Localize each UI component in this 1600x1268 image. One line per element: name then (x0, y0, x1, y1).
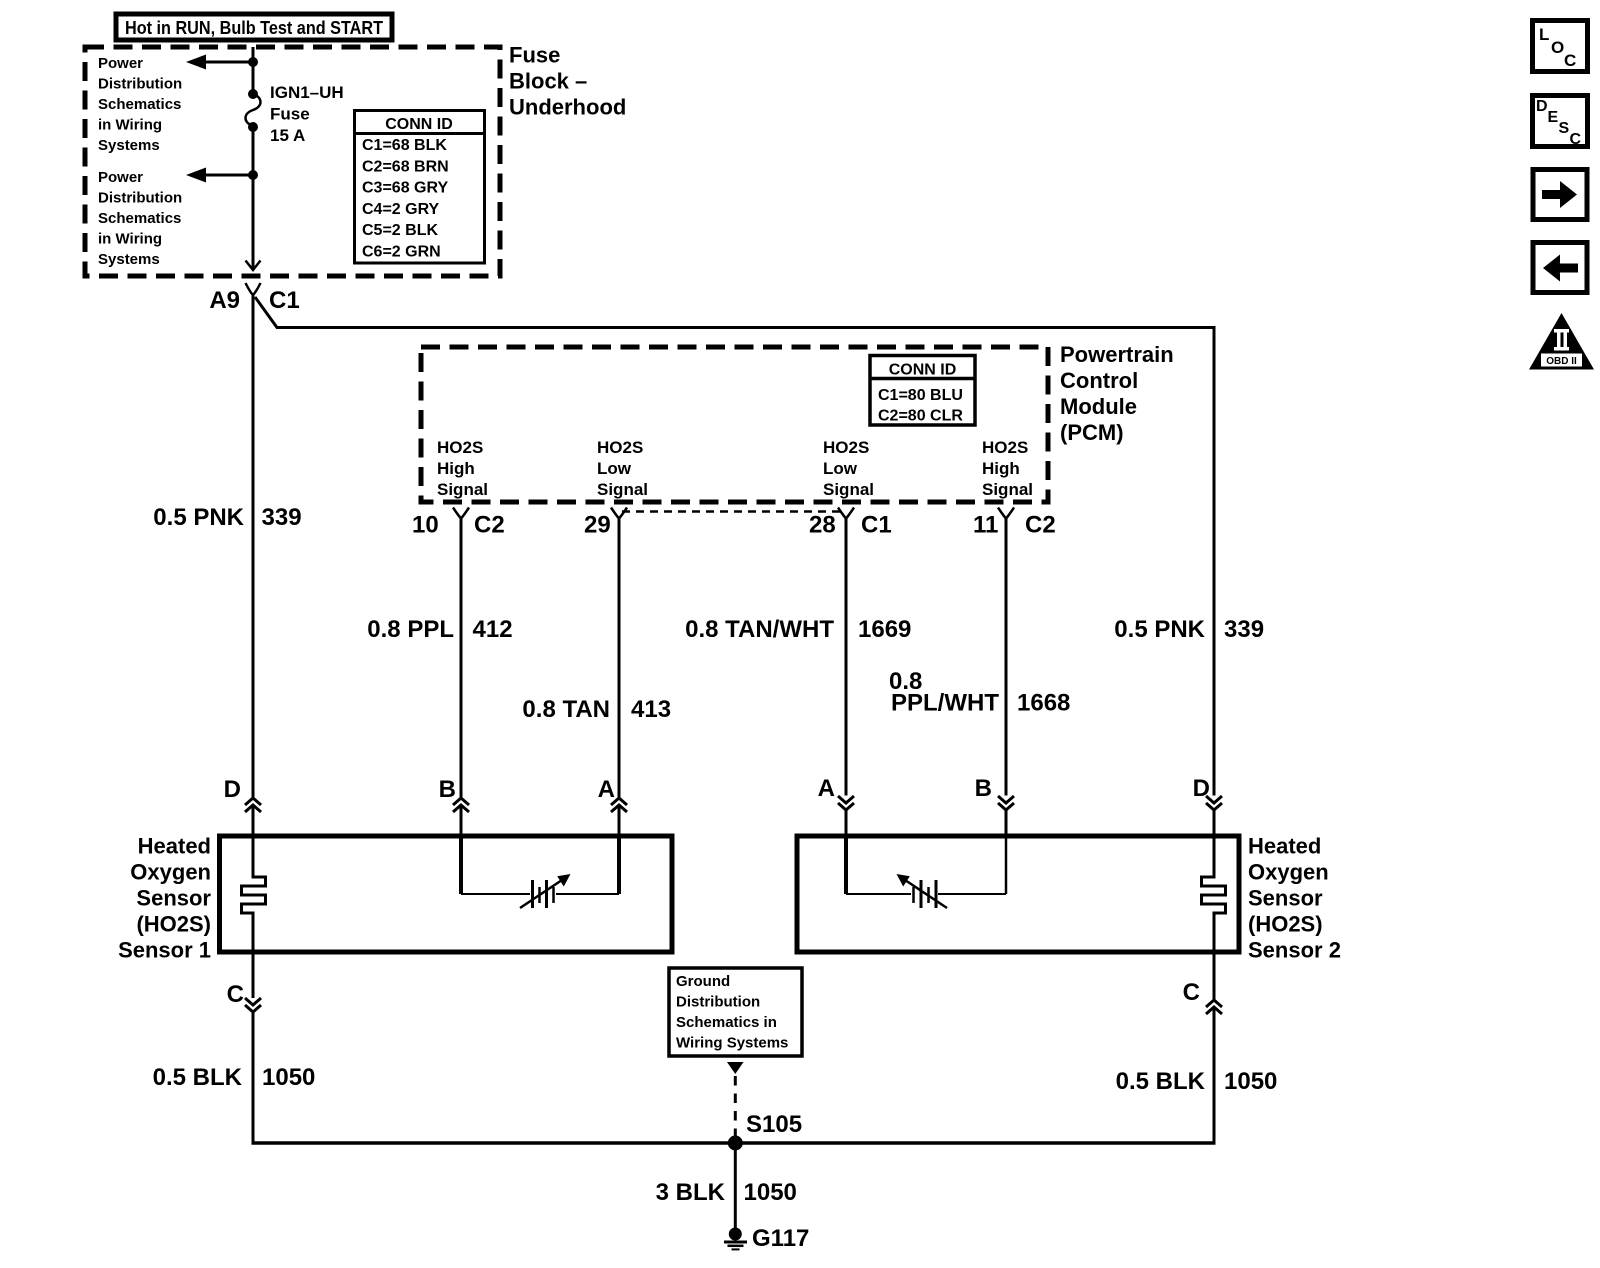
svg-text:Low: Low (823, 459, 858, 478)
svg-text:Block –: Block – (509, 69, 587, 94)
wire stubs from chevrons into sensor boxes (252, 805, 255, 838)
label: Fuse Block - Underhood (509, 43, 626, 120)
svg-text:D: D (1193, 775, 1210, 802)
wire: sensor 1 heater output to pin C (252, 952, 255, 998)
svg-text:in Wiring: in Wiring (98, 117, 162, 134)
wire: 0.8 PPL 412 from pin 10 to sensor 1 pin B (460, 519, 463, 798)
connector cup: PCM pin 11 C2 (998, 508, 1014, 519)
svg-text:OBD II: OBD II (1546, 356, 1577, 367)
svg-text:C3=68 GRY: C3=68 GRY (362, 180, 448, 197)
wire: 0.5 BLK 1050 from sensor 1 to splice (252, 1012, 255, 1145)
wire: 0.5 PNK 339 right side down to sensor 2 pin D (1213, 326, 1216, 796)
svg-text:Distribution: Distribution (98, 190, 182, 207)
svg-text:C2: C2 (474, 512, 505, 539)
svg-text:Sensor: Sensor (136, 886, 211, 911)
value label: 0.8 PPL/WHT 1668 (889, 668, 1070, 717)
svg-text:IGN1–UH: IGN1–UH (270, 83, 344, 102)
sensing cell (sensor 1): variable voltage source (461, 874, 619, 908)
net label: HO2S Low Signal (pin 29) (597, 438, 648, 499)
connector A9 / C1 terminal cup (246, 283, 261, 295)
svg-text:Systems: Systems (98, 137, 160, 154)
splice S105 junction dot (728, 1136, 743, 1151)
arrowhead from ground note box (727, 1062, 744, 1074)
svg-text:11: 11 (973, 512, 998, 539)
component box: Heated Oxygen Sensor (HO2S) Sensor 2 (797, 836, 1239, 952)
wire: 0.5 PNK 339 down to HO2S sensor 1 pin D (252, 295, 255, 798)
svg-text:1050: 1050 (1224, 1068, 1277, 1095)
connector cup: PCM pin 10 C2 (453, 508, 469, 519)
svg-text:(HO2S): (HO2S) (136, 912, 211, 937)
svg-text:G117: G117 (752, 1225, 809, 1252)
svg-text:Heated: Heated (138, 834, 211, 859)
svg-text:339: 339 (1224, 616, 1264, 643)
terminal C (sensor 1) with chevrons pointing down (227, 981, 261, 1012)
svg-text:413: 413 (631, 696, 671, 723)
note box: Ground Distribution Schematics in Wiring Systems (669, 968, 802, 1056)
svg-text:1669: 1669 (858, 616, 911, 643)
svg-text:Distribution: Distribution (98, 76, 182, 93)
svg-text:Control: Control (1060, 368, 1138, 393)
svg-text:C2=80 CLR: C2=80 CLR (878, 408, 963, 425)
svg-text:Schematics: Schematics (98, 210, 181, 227)
svg-text:in Wiring: in Wiring (98, 231, 162, 248)
fuse block underhood dashed box (85, 47, 500, 276)
svg-text:PPL/WHT: PPL/WHT (891, 690, 999, 717)
svg-text:10: 10 (412, 512, 439, 539)
svg-text:B: B (975, 775, 992, 802)
net label: HO2S High Signal (pin 10) (437, 438, 488, 499)
svg-text:O: O (1551, 38, 1564, 57)
wire: 0.8 PPL/WHT 1668 from pin 11 to sensor 2 pin B (1005, 519, 1008, 796)
label: Heated Oxygen Sensor (HO2S) Sensor 2 (1248, 834, 1341, 963)
svg-text:S: S (1559, 120, 1570, 137)
svg-text:S105: S105 (746, 1111, 802, 1138)
nav icon: back arrow button (1533, 243, 1587, 293)
svg-text:C1: C1 (861, 512, 892, 539)
svg-text:Power: Power (98, 169, 143, 186)
wire: sensor 1 pin B internal (459, 838, 463, 894)
banner: Hot in RUN, Bulb Test and START (116, 14, 392, 40)
svg-text:(PCM): (PCM) (1060, 420, 1124, 445)
svg-text:High: High (437, 459, 475, 478)
svg-text:Fuse: Fuse (509, 43, 560, 68)
wire: fuse output down to A9 terminal (252, 127, 255, 270)
wire: ignition feed across top to sensor 2 side (255, 297, 1214, 328)
svg-text:C2: C2 (1025, 512, 1056, 539)
svg-text:Ground: Ground (676, 973, 730, 990)
svg-text:C5=2 BLK: C5=2 BLK (362, 222, 438, 239)
wire: branch arrow to power distribution (lower) (186, 168, 253, 183)
svg-text:412: 412 (473, 616, 513, 643)
nav icon: DESC button (1533, 96, 1588, 149)
label: Powertrain Control Module (PCM) (1060, 342, 1174, 445)
svg-text:0.5 PNK: 0.5 PNK (1114, 616, 1205, 643)
svg-text:0.8 TAN: 0.8 TAN (522, 696, 610, 723)
ground G117 symbol (724, 1228, 747, 1250)
svg-text:D: D (1536, 98, 1548, 115)
svg-text:1668: 1668 (1017, 690, 1070, 717)
wire: sensor 2 pin B internal (1005, 838, 1008, 894)
terminal B (sensor 1) with chevrons (439, 776, 469, 812)
value label: 0.8 TAN 413 (522, 696, 671, 723)
wire: sensor 1 pin A internal (617, 838, 621, 894)
wire: branch arrow to power distribution (upper) (186, 55, 253, 70)
svg-text:Hot in RUN, Bulb Test and STAR: Hot in RUN, Bulb Test and START (125, 18, 383, 38)
svg-text:High: High (982, 459, 1020, 478)
note: Power Distribution Schematics in Wiring Systems (upper) (98, 55, 182, 154)
svg-text:0.8 TAN/WHT: 0.8 TAN/WHT (685, 616, 834, 643)
svg-text:Distribution: Distribution (676, 994, 760, 1011)
terminal C (sensor 2) with chevrons pointing up (1183, 979, 1222, 1014)
value label: 0.5 PNK 339 (153, 504, 301, 531)
wire: sensor 2 heater output to pin C (1213, 952, 1216, 1000)
value label: 0.5 PNK 339 (right) (1114, 616, 1264, 643)
svg-text:L: L (1539, 25, 1549, 44)
terminal D (sensor 2) with chevrons pointing down (1193, 775, 1222, 810)
svg-text:0.5 BLK: 0.5 BLK (153, 1064, 243, 1091)
connector table: CONN ID (fuse block) (355, 111, 485, 264)
wire: 0.8 TAN 413 from pin 29 to sensor 1 pin A (618, 519, 621, 798)
fuse IGN1-UH 15 A symbol (246, 89, 261, 132)
svg-text:C1=80 BLU: C1=80 BLU (878, 387, 963, 404)
svg-text:1050: 1050 (262, 1064, 315, 1091)
svg-text:C2=68 BRN: C2=68 BRN (362, 158, 449, 175)
svg-text:0.5 BLK: 0.5 BLK (1116, 1068, 1206, 1095)
wire: sensor 2 pin A internal (844, 838, 848, 894)
svg-text:CONN ID: CONN ID (889, 362, 957, 379)
svg-text:HO2S: HO2S (823, 438, 869, 457)
connector table: CONN ID (PCM) (870, 356, 975, 426)
component box: Heated Oxygen Sensor (HO2S) Sensor 1 (220, 836, 673, 952)
svg-text:Oxygen: Oxygen (1248, 860, 1329, 885)
connector cup: PCM pin 29 (611, 508, 627, 519)
nav icon: forward arrow button (1533, 170, 1587, 220)
svg-text:Oxygen: Oxygen (130, 860, 211, 885)
svg-text:339: 339 (262, 504, 302, 531)
value label: 0.8 TAN/WHT 1669 (685, 616, 911, 643)
svg-text:Power: Power (98, 55, 143, 72)
svg-text:28: 28 (809, 512, 836, 539)
svg-text:C: C (1183, 979, 1200, 1006)
svg-text:Sensor 1: Sensor 1 (118, 938, 211, 963)
svg-text:Signal: Signal (597, 480, 648, 499)
note: Power Distribution Schematics in Wiring Systems (lower) (98, 169, 182, 268)
wire: ground bus along bottom (252, 1141, 1216, 1145)
svg-text:Signal: Signal (982, 480, 1033, 499)
nav icon: LOC button (1533, 21, 1588, 72)
svg-text:C1: C1 (269, 287, 300, 314)
arrowhead leaving fuse block (246, 261, 261, 271)
terminal B (sensor 2) with chevrons pointing down (975, 775, 1014, 810)
svg-text:Underhood: Underhood (509, 95, 626, 120)
value label: 0.8 PPL 412 (367, 616, 512, 643)
dashed reference wire to splice S105 (734, 1076, 737, 1140)
svg-text:HO2S: HO2S (597, 438, 643, 457)
svg-text:Fuse: Fuse (270, 105, 310, 124)
label: IGN1-UH Fuse 15 A (270, 83, 344, 145)
svg-text:Schematics in: Schematics in (676, 1014, 777, 1031)
terminal A (sensor 1) with chevrons (598, 776, 627, 812)
svg-text:1050: 1050 (744, 1179, 797, 1206)
svg-text:HO2S: HO2S (982, 438, 1028, 457)
value label: 0.5 BLK 1050 (right) (1116, 1068, 1278, 1095)
svg-text:29: 29 (584, 512, 611, 539)
wire: 0.5 BLK 1050 from sensor 2 to splice (1213, 1007, 1216, 1145)
svg-text:A: A (818, 775, 835, 802)
heater element (sensor 1) (242, 838, 266, 952)
svg-text:C: C (1564, 51, 1576, 70)
svg-text:Low: Low (597, 459, 632, 478)
PCM dashed box (421, 347, 1048, 502)
svg-text:C: C (227, 981, 244, 1008)
net label: HO2S High Signal (pin 11) (982, 438, 1033, 499)
inline connector C1 dashed tie between pins 29 and 28 (622, 510, 843, 513)
svg-text:C1=68 BLK: C1=68 BLK (362, 137, 447, 154)
svg-text:C: C (1570, 131, 1582, 148)
junction dot at upper branch (248, 57, 258, 67)
value label: 0.5 BLK 1050 (left) (153, 1064, 316, 1091)
junction dot at lower branch (248, 170, 258, 180)
svg-text:Wiring Systems: Wiring Systems (676, 1035, 788, 1052)
svg-text:Powertrain: Powertrain (1060, 342, 1174, 367)
label: Heated Oxygen Sensor (HO2S) Sensor 1 (118, 834, 211, 963)
svg-text:CONN ID: CONN ID (385, 116, 453, 133)
terminal D (sensor 1) with chevrons (224, 776, 261, 812)
svg-text:0.5 PNK: 0.5 PNK (153, 504, 244, 531)
svg-text:(HO2S): (HO2S) (1248, 912, 1323, 937)
wire: vertical feed from hot bus into fuse (252, 47, 255, 92)
sensing cell (sensor 2): variable voltage source (846, 874, 1006, 908)
svg-text:Systems: Systems (98, 251, 160, 268)
svg-text:D: D (224, 776, 241, 803)
svg-text:Signal: Signal (823, 480, 874, 499)
svg-text:Sensor 2: Sensor 2 (1248, 938, 1341, 963)
svg-text:Schematics: Schematics (98, 96, 181, 113)
svg-text:A9: A9 (209, 287, 240, 314)
svg-text:HO2S: HO2S (437, 438, 483, 457)
terminal A (sensor 2) with chevrons pointing down (818, 775, 854, 810)
value label: 3 BLK 1050 (656, 1179, 797, 1206)
svg-text:3 BLK: 3 BLK (656, 1179, 726, 1206)
heater element (sensor 2) (1202, 838, 1226, 952)
svg-text:Signal: Signal (437, 480, 488, 499)
svg-text:0.8 PPL: 0.8 PPL (367, 616, 454, 643)
svg-text:C4=2 GRY: C4=2 GRY (362, 201, 440, 218)
svg-text:Heated: Heated (1248, 834, 1321, 859)
svg-text:A: A (598, 776, 615, 803)
svg-text:E: E (1548, 109, 1559, 126)
svg-text:B: B (439, 776, 456, 803)
nav icon: OBD II triangle (1529, 313, 1594, 370)
svg-text:Sensor: Sensor (1248, 886, 1323, 911)
svg-text:Module: Module (1060, 394, 1137, 419)
wire: 0.8 TAN/WHT 1669 from pin 28 to sensor 2 pin A (845, 519, 848, 796)
connector cup: PCM pin 28 C1 (838, 508, 854, 519)
svg-text:C6=2 GRN: C6=2 GRN (362, 244, 441, 261)
wire: 3 BLK 1050 from splice to ground (734, 1143, 737, 1229)
svg-text:15 A: 15 A (270, 126, 305, 145)
net label: HO2S Low Signal (pin 28) (823, 438, 874, 499)
